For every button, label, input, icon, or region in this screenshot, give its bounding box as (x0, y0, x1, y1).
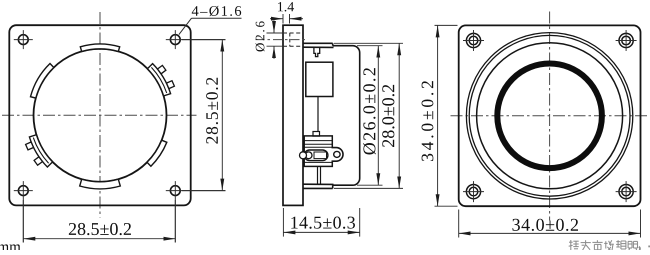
right view vertical centerline (549, 12, 551, 221)
left view NW tab (rim lug) (31, 64, 54, 99)
right view bold cone circle (497, 64, 602, 169)
dimension 14.5 extension lines (283, 208, 359, 237)
dimension 34.0 bottom extension lines (459, 210, 641, 238)
left view SE tab (rim lug) (147, 140, 167, 166)
flange rivet (300, 152, 307, 159)
unit label mm (0, 244, 21, 251)
side view magnet (306, 62, 333, 96)
dimension 28.0 extension lines (334, 43, 403, 188)
dimension 34.0 left extension lines (435, 25, 458, 206)
mounting hole BL (Ø2.6/Ø1.6) right view (463, 181, 484, 202)
dimension line 34.0 bottom (459, 232, 641, 234)
eyelet hole (334, 151, 340, 157)
dimension line 28.0 (398, 43, 400, 188)
side view top rim lines (303, 43, 334, 47)
terminal eyelet lug (332, 148, 344, 162)
slot rivet circle (305, 152, 312, 159)
left view vertical dimension line 28.5 (221, 40, 223, 191)
text 28.5±0.2 vertical (206, 78, 218, 144)
left view bottom tab (rim lug) (80, 179, 121, 189)
left view vertical dimension 28.5 extension lines (182, 40, 226, 191)
mounting hole TR (Ø1.6) left view (166, 30, 226, 49)
text 14.5±0.3 (291, 217, 355, 229)
slot tongue (314, 152, 327, 159)
hidden hole top (dashed) (283, 33, 303, 46)
terminal block layer lines (304, 141, 332, 163)
right view surround circle (477, 43, 623, 189)
text Ø2.6 vertical (255, 21, 264, 51)
mounting hole BR (Ø1.6) left view (166, 181, 226, 242)
right view outer ring circle 2 (469, 35, 630, 196)
right view horizontal centerline (451, 115, 648, 117)
text 28.0±0.2 vertical (382, 85, 394, 147)
text Ø26.0±0.2 vertical (363, 68, 376, 154)
text 28.5±0.2 bottom (69, 223, 131, 235)
dimension 1.4 arrows (270, 18, 303, 20)
text 34.0±0.2 bottom (512, 219, 578, 231)
dimension 1.4 extension lines (283, 14, 290, 24)
right view outer ring circle 1 (466, 33, 632, 199)
dimension line Ø26.0 (377, 46, 379, 186)
text 1.4 (278, 2, 294, 11)
dimension Ø2.6 arrows (273, 21, 275, 59)
left view horizontal centerline (2, 114, 197, 116)
dimension Ø2.6 extension lines (267, 33, 285, 46)
text 34.0±0.2 vertical (422, 81, 434, 161)
hidden counterbore wall (dashed) (289, 33, 291, 46)
side view body outline (rounded back) (333, 46, 360, 186)
left view SW clip (spring clip with teeth) (26, 135, 53, 167)
side view bottom rim lines (303, 184, 334, 188)
terminal slot (capsule) (304, 150, 328, 161)
mounting hole BR (Ø2.6/Ø1.6) right view (616, 181, 637, 202)
left view bottom dimension 28.5 extension lines (23, 200, 175, 243)
left view square flange outline (9, 25, 190, 205)
mounting hole BL (Ø1.6) left view (14, 181, 33, 242)
mounting hole TL (Ø2.6/Ø1.6) right view (463, 30, 484, 51)
left view top tab (rim lug) (80, 44, 119, 51)
left view main circle (frame rim) (34, 49, 167, 182)
left view bottom dimension line 28.5 (23, 238, 175, 240)
hole centerline (256, 39, 308, 41)
right view square outline (459, 25, 641, 206)
dimension line 14.5 (283, 231, 359, 233)
label 4-Ø1.6 (192, 6, 241, 16)
dimension Ø26.0 extension lines (357, 46, 383, 186)
dimension line 34.0 left (437, 25, 439, 206)
lead wire (317, 97, 319, 132)
mounting hole TL (Ø1.6) left view (14, 30, 33, 49)
mounting hole TR (Ø2.6/Ø1.6) right view (616, 30, 637, 51)
left view NE clip (spring clip with teeth) (147, 64, 174, 96)
left view vertical centerline (99, 12, 101, 218)
watermark (gray CJK text) (569, 240, 650, 251)
side view top hook clip (314, 47, 320, 56)
terminal tab (313, 132, 320, 137)
terminal block (304, 136, 332, 167)
side view flange block (283, 25, 303, 205)
terminal support legs (318, 166, 321, 184)
leader line for hole callout (179, 18, 242, 34)
